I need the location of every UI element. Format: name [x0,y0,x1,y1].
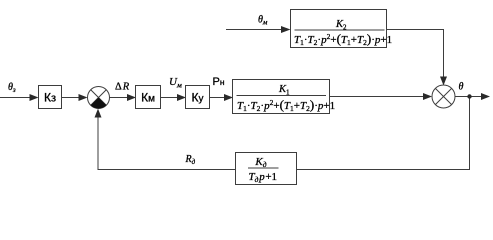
block Km [136,86,161,109]
svg-text:T1·T2·p2+(T1+T2)·p+1: T1·T2·p2+(T1+T2)·p+1 [294,31,392,47]
arrowhead into S2 top [440,77,447,86]
block Ky [186,86,210,109]
svg-text:Км: Км [141,91,155,105]
wire: W2 to S2 corner [387,30,444,78]
wire: output theta [455,96,482,98]
arrowhead into Km [127,94,136,101]
arrowhead into K3 [30,94,39,101]
wire: feedback from output dot down and left to W3 [297,97,470,170]
summing junction S1 [88,87,110,109]
svg-text:Tдp+1: Tдp+1 [249,171,278,184]
wire: S1 to Km [110,97,128,99]
arrowhead output end [481,93,490,100]
arrowhead into S1 left [79,94,88,101]
wire: Ky to W1 [210,97,225,99]
arrowhead into S2 left [423,93,432,100]
block W2: K2 / (T1 T2 p^2 + (T1+T2) p + 1) [291,10,393,48]
arrowhead into Ky [177,94,186,101]
summing junction S2 [432,85,455,108]
svg-text:T1·T2·p2+(T1+T2)·p+1: T1·T2·p2+(T1+T2)·p+1 [237,97,335,113]
wire: input theta_m top [226,29,282,31]
wire: K3 to S1 [62,97,80,99]
arrowhead into W1 [224,94,233,101]
wire: input theta_z [0,97,30,99]
svg-text:Кз: Кз [44,91,56,105]
svg-text:Ку: Ку [192,91,204,105]
arrowhead into S1 bottom [95,109,102,118]
junction dot on output [467,94,471,98]
svg-text:ΔR: ΔR [115,82,130,93]
svg-text:Рн: Рн [213,76,225,88]
wire: Km to Ky [161,97,178,99]
block W1: K1 / (T1 T2 p^2 + (T1+T2) p + 1) [233,80,336,114]
block K3 [39,86,62,109]
wire: W1 to S2 [330,96,424,98]
block W3: Kd / (Td p + 1) [236,153,297,185]
wire: W3 left to S1 bottom [98,118,236,170]
svg-text:θ: θ [459,82,464,93]
arrowhead into W2 [281,26,291,33]
